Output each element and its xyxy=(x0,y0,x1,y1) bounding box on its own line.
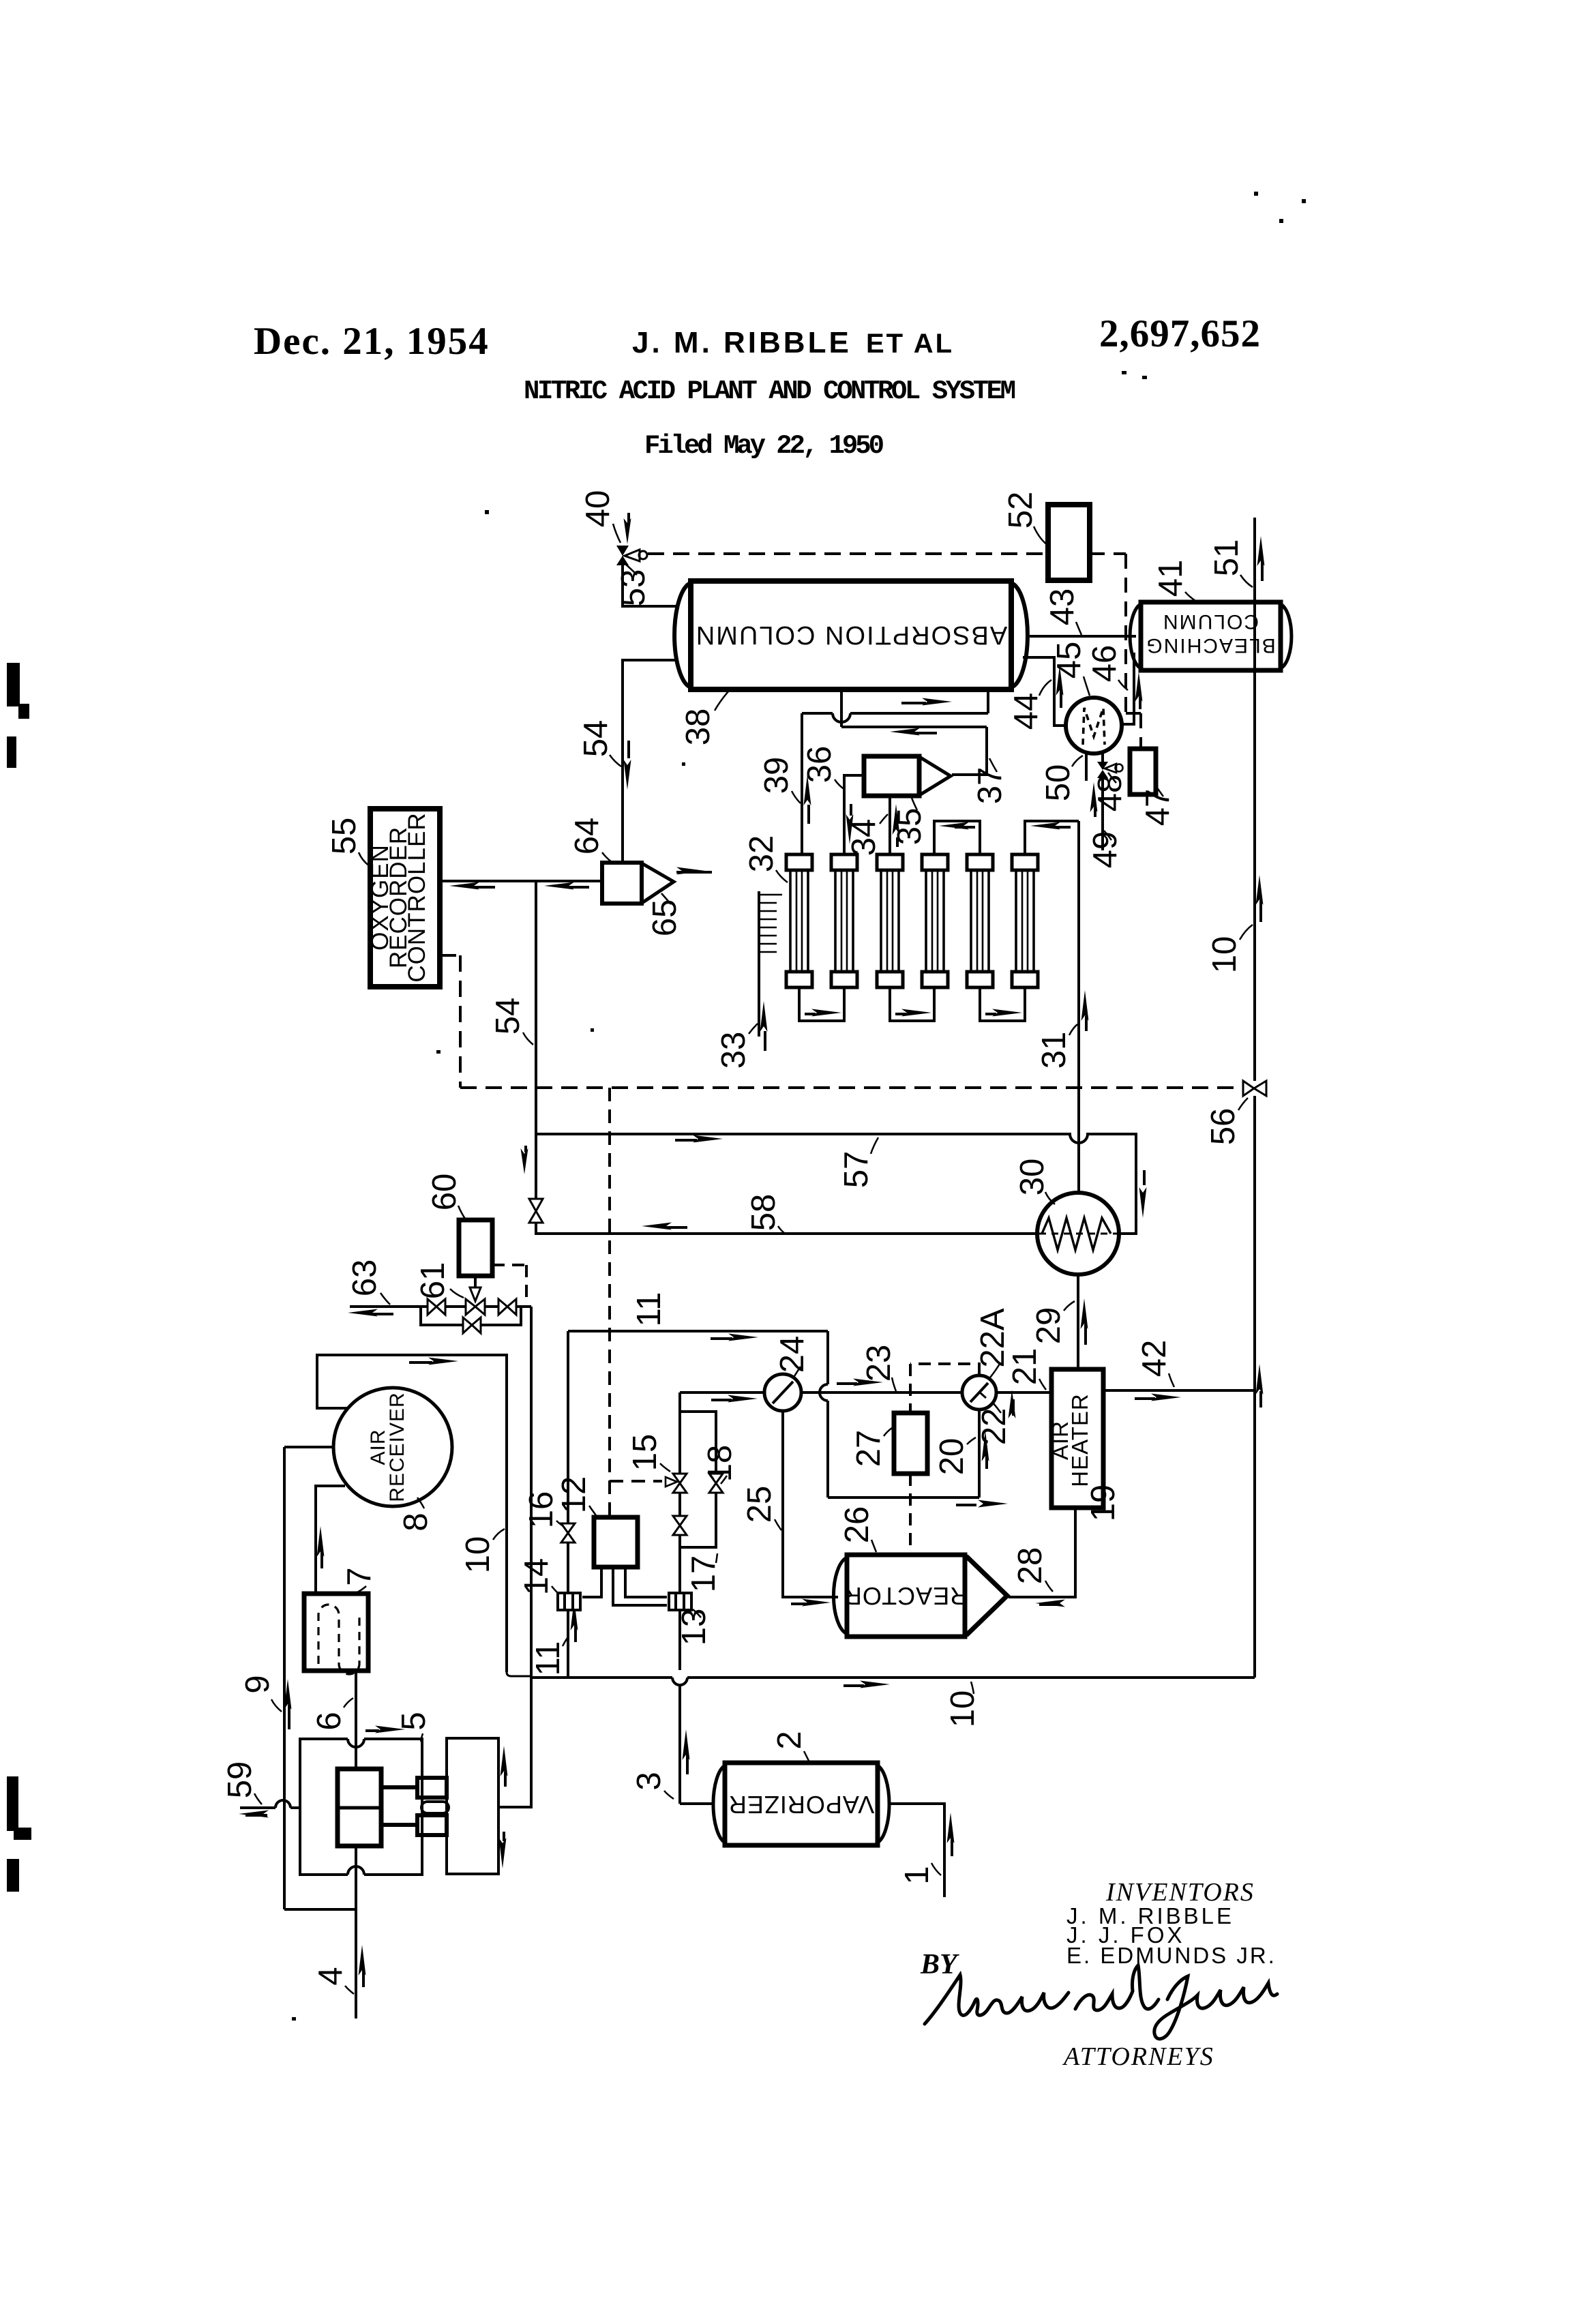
cooler condenser battery 32: unit 1 xyxy=(786,854,812,987)
bottom U pipe units 5-6 xyxy=(980,987,1025,1021)
pipe 25 to reactor xyxy=(783,1411,838,1597)
leader 39 xyxy=(792,791,801,803)
leader 31 xyxy=(1069,1024,1077,1035)
flow arrow left 4-5 xyxy=(939,822,975,830)
svg-text:61: 61 xyxy=(415,1262,451,1300)
flow arrow right 3-4 xyxy=(895,1009,931,1017)
bottom U pipe units 1-2 xyxy=(799,987,844,1021)
bleaching column 41 xyxy=(1130,602,1292,670)
svg-text:BY: BY xyxy=(920,1949,959,1980)
mixing tee box 12 xyxy=(594,1517,638,1567)
flow arrow down on 54 line xyxy=(521,1146,528,1174)
cooling water comb 33 xyxy=(759,891,782,1037)
absorption column 38 xyxy=(674,581,1028,689)
heat exchanger 30 xyxy=(1037,1193,1119,1275)
control signal dashed box52 to valve46/47 xyxy=(1090,554,1141,749)
svg-text:55: 55 xyxy=(326,818,363,855)
leader 34 xyxy=(880,814,888,824)
svg-text:39: 39 xyxy=(758,757,795,794)
svg-text:14: 14 xyxy=(518,1558,555,1596)
svg-text:3: 3 xyxy=(631,1772,668,1790)
flow arrow right 57 xyxy=(675,1135,723,1143)
reactor 26 xyxy=(833,1555,1007,1637)
air heater 19 xyxy=(1047,1369,1103,1508)
svg-text:4: 4 xyxy=(312,1967,349,1985)
leader 1 xyxy=(931,1863,941,1875)
condenser unit 3 xyxy=(877,854,903,987)
leader 54 upper xyxy=(610,755,621,766)
svg-text:7: 7 xyxy=(341,1567,378,1585)
box 12 legs to fitting 13 xyxy=(613,1567,667,1605)
leader 4 xyxy=(345,1986,354,1994)
relay box 47 xyxy=(1130,749,1156,794)
svg-text:36: 36 xyxy=(801,746,838,784)
svg-text:10: 10 xyxy=(944,1690,981,1728)
leader 13 xyxy=(693,1609,701,1618)
leader 38 xyxy=(715,691,728,711)
pipe 25 top loop xyxy=(568,1331,979,1498)
svg-text:21: 21 xyxy=(1006,1348,1043,1386)
leader 49 xyxy=(1104,831,1111,840)
bottom U pipe units 3-4 xyxy=(890,987,934,1021)
svg-text:12: 12 xyxy=(556,1476,593,1514)
flow arrow right in upper duct xyxy=(901,698,952,706)
svg-text:22: 22 xyxy=(976,1408,1013,1446)
flow arrow left b xyxy=(544,882,589,890)
flow arrow right after 24 xyxy=(837,1379,883,1386)
bypass pipe 17 xyxy=(680,1412,716,1547)
svg-text:48: 48 xyxy=(1092,775,1129,812)
flow arrow up 49 xyxy=(1090,782,1098,817)
flow arrow up 44 xyxy=(1056,666,1064,708)
block valve left xyxy=(428,1299,445,1315)
leader 23 xyxy=(892,1377,896,1391)
flow arrow up 4 xyxy=(359,1945,366,1987)
compressor casing right xyxy=(447,1738,498,1874)
block valve below 15 xyxy=(673,1516,687,1535)
svg-text:9: 9 xyxy=(239,1675,276,1693)
pipe 9 vertical xyxy=(283,1447,286,1909)
leader 29 xyxy=(1064,1301,1075,1311)
svg-text:29: 29 xyxy=(1030,1307,1067,1345)
control valve 15 xyxy=(666,1474,687,1493)
flow arrow right 42 xyxy=(1135,1394,1181,1401)
svg-text:38: 38 xyxy=(680,709,717,746)
air receiver 8 xyxy=(333,1388,452,1506)
flow arrow left 28 xyxy=(1035,1600,1065,1607)
oxygen recorder controller box 55 xyxy=(367,809,440,987)
flow arrow up 3 xyxy=(683,1729,690,1774)
leader 37 xyxy=(989,758,997,772)
leader 22 xyxy=(993,1403,1001,1413)
pipe 46 bleaching column to exchanger 45 xyxy=(1123,653,1134,724)
leader 7 xyxy=(356,1586,366,1593)
flow arrow up mid line 10 xyxy=(1256,875,1264,922)
flow arrow up 1 xyxy=(947,1813,955,1856)
flow arrow up 39 xyxy=(804,775,811,824)
leader 56 xyxy=(1238,1098,1248,1110)
leader 10 right xyxy=(1240,925,1253,940)
leader 21 xyxy=(1039,1379,1046,1390)
svg-text:ATTORNEYS: ATTORNEYS xyxy=(1062,2042,1214,2071)
svg-text:15: 15 xyxy=(627,1434,663,1472)
block valve right xyxy=(498,1299,516,1315)
top pipe unit 6 to exchanger 30 xyxy=(1025,821,1079,854)
pipe second stage suction xyxy=(498,1307,531,1807)
leader 27 xyxy=(884,1428,892,1436)
svg-text:59: 59 xyxy=(222,1761,258,1799)
receiver loop pipe xyxy=(317,1355,507,1672)
svg-text:37: 37 xyxy=(972,767,1009,805)
svg-text:11: 11 xyxy=(530,1641,567,1676)
svg-text:56: 56 xyxy=(1205,1108,1242,1146)
bypass pipe with valve xyxy=(421,1307,521,1325)
svg-text:VAPORIZER: VAPORIZER xyxy=(728,1791,874,1819)
svg-text:22A: 22A xyxy=(974,1308,1011,1368)
leader 59 xyxy=(254,1793,262,1804)
leader 61 xyxy=(450,1289,464,1298)
hop over pipe 9 xyxy=(275,1800,290,1808)
top U pipe units 4-5 xyxy=(934,821,980,854)
svg-text:ABSORPTION COLUMN: ABSORPTION COLUMN xyxy=(695,621,1007,649)
svg-text:11: 11 xyxy=(631,1292,668,1327)
flow arrow right lower loop xyxy=(956,1500,1008,1508)
svg-text:32: 32 xyxy=(743,835,780,873)
vaporizer feed pipe 3 xyxy=(680,1802,713,1805)
leader 47 xyxy=(1156,786,1163,796)
svg-text:E. EDMUNDS JR.: E. EDMUNDS JR. xyxy=(1066,1943,1277,1968)
pipe 34 separator36 bottom to condenser 3 xyxy=(889,796,891,854)
relay box 27 xyxy=(894,1413,927,1474)
svg-text:41: 41 xyxy=(1152,560,1189,597)
leader 33 xyxy=(749,1024,758,1034)
leader 22A xyxy=(990,1364,1000,1377)
svg-text:ET AL: ET AL xyxy=(866,329,954,359)
svg-text:52: 52 xyxy=(1002,492,1039,529)
leader 42 xyxy=(1169,1373,1174,1387)
flow arrow right before 24 xyxy=(711,1395,758,1403)
flow arrow left 59 xyxy=(239,1811,269,1818)
flow arrow up 11 xyxy=(571,1600,578,1642)
leader 36 xyxy=(835,779,845,790)
leader 32 xyxy=(776,870,788,882)
blowoff line 63 xyxy=(350,1305,531,1308)
svg-text:NITRIC ACID PLANT AND CONTROL: NITRIC ACID PLANT AND CONTROL SYSTEM xyxy=(524,376,1016,406)
orifice meter 24 xyxy=(764,1374,801,1411)
control dashed box60 to manifold xyxy=(492,1265,526,1302)
leader 17 xyxy=(716,1553,717,1563)
separator 36 xyxy=(864,756,951,796)
leader 15 xyxy=(660,1463,670,1472)
svg-text:REACTOR: REACTOR xyxy=(844,1582,968,1610)
ammonia feed pipe 1 xyxy=(889,1804,944,1897)
svg-text:28: 28 xyxy=(1012,1547,1049,1585)
flanged fitting 13 xyxy=(669,1593,691,1610)
flow arrow up 20 xyxy=(982,1431,989,1469)
leader 50 xyxy=(1072,756,1083,766)
leader 25 xyxy=(775,1519,781,1530)
crossing dip on duct under nozzle xyxy=(833,713,850,722)
pipe 6 coil to compressor xyxy=(355,1671,357,1769)
pipe 59 first stage xyxy=(240,1806,275,1809)
control dashed from controller 55 xyxy=(440,955,1242,1088)
svg-text:60: 60 xyxy=(426,1174,463,1211)
svg-text:31: 31 xyxy=(1036,1032,1073,1069)
svg-text:58: 58 xyxy=(745,1194,782,1232)
svg-text:25: 25 xyxy=(741,1486,778,1523)
flow arrow left 58 xyxy=(642,1223,687,1230)
leader 64 xyxy=(602,852,612,862)
control valve 61 xyxy=(466,1299,485,1315)
svg-text:10: 10 xyxy=(1206,936,1243,974)
svg-text:Dec. 21, 1954: Dec. 21, 1954 xyxy=(254,320,490,363)
pipe 50 exchanger drain stub xyxy=(1085,751,1088,781)
svg-text:40: 40 xyxy=(580,490,616,528)
shaft coupling lower xyxy=(381,1815,447,1835)
pipe 43 column to bleaching column xyxy=(1030,635,1136,638)
flow arrow up 31 xyxy=(1081,990,1089,1031)
svg-text:42: 42 xyxy=(1136,1340,1173,1377)
main pipe right riser connection xyxy=(1252,1676,1255,1679)
leader 54 lower xyxy=(523,1032,533,1045)
flow arrow down right casing xyxy=(499,1832,507,1868)
leader 40 xyxy=(613,524,621,543)
pipe separator36 to condenser 2 xyxy=(844,775,864,854)
svg-text:46: 46 xyxy=(1086,645,1123,683)
svg-text:43: 43 xyxy=(1044,589,1081,626)
leader 44 xyxy=(1039,680,1051,696)
svg-text:34: 34 xyxy=(846,819,882,856)
leader 65 xyxy=(661,893,671,904)
attorney signature Hudson and Young xyxy=(925,1965,1277,2039)
leader 35 xyxy=(912,798,917,810)
flow arrow up 34 xyxy=(893,804,900,847)
leader 57 xyxy=(871,1137,878,1154)
main pipe 10 bottom xyxy=(531,1676,1252,1679)
casing notch top xyxy=(348,1739,364,1747)
flow arrow right top loop xyxy=(711,1334,758,1341)
leader 26 xyxy=(871,1540,876,1552)
leader 16 xyxy=(556,1521,563,1526)
leader 51 xyxy=(1240,575,1253,587)
flow arrow right 10 xyxy=(844,1681,890,1688)
leader 20 xyxy=(967,1437,976,1444)
pipe 29 exchanger 30 to air heater xyxy=(1077,1275,1079,1369)
leader 60 xyxy=(458,1206,465,1219)
instrument air line 23 xyxy=(680,1391,962,1394)
flow arrow right 5-6 xyxy=(985,1009,1022,1017)
leader 30 xyxy=(1045,1192,1055,1204)
bypass valve xyxy=(463,1317,481,1333)
svg-text:24: 24 xyxy=(774,1336,811,1373)
aftercooler coil box 7 xyxy=(304,1594,368,1674)
valve 48 with actuator xyxy=(1097,751,1123,850)
svg-text:5: 5 xyxy=(395,1712,432,1730)
svg-text:INVENTORS: INVENTORS xyxy=(1105,1878,1255,1907)
vent arrow 65 xyxy=(676,867,712,875)
leader 55 xyxy=(359,852,370,866)
pipe 42 air heater to main riser xyxy=(1103,1389,1255,1392)
flow arrow up 46 xyxy=(1135,672,1143,709)
svg-text:53: 53 xyxy=(615,569,652,607)
pipe 39 duct to condenser 1 xyxy=(801,713,803,854)
leader 63 xyxy=(380,1293,390,1305)
svg-text:65: 65 xyxy=(646,899,683,937)
valve 16 xyxy=(561,1523,575,1543)
leader 10 loop xyxy=(493,1529,505,1540)
pipe 44 column to exchanger 45 xyxy=(1023,657,1065,726)
svg-text:6: 6 xyxy=(311,1712,348,1730)
valve on sample line xyxy=(529,1199,543,1223)
scan speckle dots xyxy=(292,192,1306,2021)
flow arrow left unit 6 xyxy=(1030,822,1071,830)
control signal dashed valve40 to box52 xyxy=(648,552,1048,555)
orifice meter 22A xyxy=(962,1375,996,1410)
leader 14 xyxy=(552,1586,557,1592)
separator 64 xyxy=(602,863,674,904)
leader 43 xyxy=(1076,622,1081,635)
condenser unit 6 xyxy=(1012,854,1038,987)
control dashed to box 12 and valve 15 xyxy=(610,1088,662,1517)
svg-text:J. M. RIBBLE: J. M. RIBBLE xyxy=(632,326,852,359)
leader 53 xyxy=(625,564,637,575)
svg-text:63: 63 xyxy=(346,1260,383,1297)
upper duct to exchanger 44 side xyxy=(802,691,988,713)
flow arrow up to receiver xyxy=(317,1526,325,1568)
shaft coupling upper xyxy=(381,1778,447,1798)
secondary air pipe 11 xyxy=(567,1331,569,1678)
pipe 28 reactor to air heater xyxy=(1009,1508,1075,1597)
pipe 53 valve to column xyxy=(623,565,676,606)
flow arrow right 1-2 xyxy=(805,1009,841,1017)
svg-text:13: 13 xyxy=(676,1609,713,1646)
column bottom nozzle xyxy=(840,689,843,727)
leader 11 bottom xyxy=(563,1638,567,1646)
flow arrow right loop xyxy=(409,1358,458,1365)
casing notch bottom xyxy=(348,1866,364,1875)
lower gas pipe from nozzle xyxy=(841,726,987,728)
pipe 9 horizontal to receiver xyxy=(284,1446,333,1448)
leader 10 bottom xyxy=(971,1682,974,1694)
flow arrow left 63 xyxy=(348,1309,393,1317)
flanged fitting 14 xyxy=(558,1593,580,1610)
svg-text:47: 47 xyxy=(1139,789,1176,826)
condenser unit 4 xyxy=(922,854,948,987)
svg-text:54: 54 xyxy=(490,998,526,1035)
svg-text:23: 23 xyxy=(861,1345,897,1382)
leader 3 xyxy=(664,1791,674,1799)
svg-text:27: 27 xyxy=(850,1430,887,1468)
svg-text:19: 19 xyxy=(1085,1485,1122,1522)
shaft coupling pill xyxy=(421,1802,449,1813)
leader 41 xyxy=(1185,592,1195,601)
hop at instrument line xyxy=(820,1384,828,1401)
svg-text:64: 64 xyxy=(569,818,606,855)
leader 12 xyxy=(589,1506,596,1515)
pipe 20 xyxy=(978,1410,981,1498)
control valve 56 xyxy=(1243,1081,1266,1096)
control dashed 22A to relay 27 xyxy=(910,1364,979,1413)
flow arrow right at compressor top xyxy=(365,1726,405,1733)
leader 58 xyxy=(778,1226,784,1233)
controller box 52 xyxy=(1048,505,1090,580)
svg-text:20: 20 xyxy=(934,1438,970,1476)
leader 5 xyxy=(421,1733,423,1742)
control valve 40 xyxy=(616,546,647,565)
leader 6 xyxy=(344,1698,353,1708)
controller box 60 xyxy=(459,1220,492,1276)
svg-text:26: 26 xyxy=(839,1506,876,1544)
svg-text:30: 30 xyxy=(1014,1159,1051,1196)
actuator stem valve 61 xyxy=(470,1276,481,1301)
svg-text:1: 1 xyxy=(899,1866,936,1884)
leader 8 xyxy=(417,1498,424,1508)
leader 24 xyxy=(794,1367,801,1376)
svg-text:Filed May 22, 1950: Filed May 22, 1950 xyxy=(644,431,884,461)
flow arrow down on 54 xyxy=(624,741,631,790)
svg-text:57: 57 xyxy=(838,1151,875,1189)
pipe 54 sample line down xyxy=(535,881,537,1134)
flow arrow up 29 xyxy=(1081,1298,1088,1345)
svg-text:44: 44 xyxy=(1008,693,1045,730)
loop joins drop pipe xyxy=(507,1672,531,1676)
flow arrow up main riser at 42 xyxy=(1256,1364,1264,1407)
flow arrow up 33 xyxy=(760,1001,768,1051)
svg-text:8: 8 xyxy=(398,1513,434,1531)
svg-text:16: 16 xyxy=(523,1491,560,1529)
ammonia gas pipe to fitting 13 xyxy=(678,1392,681,1804)
pipe 31 exchanger 30 to condenser 6 xyxy=(1077,821,1080,1193)
svg-text:2,697,652: 2,697,652 xyxy=(1099,312,1261,355)
svg-text:45: 45 xyxy=(1051,642,1088,679)
svg-text:10: 10 xyxy=(460,1536,496,1574)
flow arrow up right casing xyxy=(501,1746,508,1787)
flow arrow up 51 xyxy=(1257,536,1265,581)
condenser unit 2 xyxy=(831,854,857,987)
leader 18 xyxy=(721,1476,727,1484)
leader 9 xyxy=(271,1699,282,1712)
svg-text:18: 18 xyxy=(702,1445,738,1483)
pipe 58 xyxy=(536,1134,1037,1234)
control dashed 27 to reactor xyxy=(909,1474,912,1553)
leader 52 xyxy=(1034,526,1048,546)
box 12 left leg to fitting 14 xyxy=(582,1567,601,1597)
heat exchanger 45 xyxy=(1066,698,1122,754)
leader 48 xyxy=(1108,773,1116,783)
svg-text:54: 54 xyxy=(578,720,614,758)
flow arrow left a xyxy=(449,882,495,890)
flow arrow left on lower pipe xyxy=(890,728,937,736)
flow arrow up at 21 xyxy=(1009,1390,1016,1418)
vaporizer 2 xyxy=(713,1763,889,1845)
svg-text:51: 51 xyxy=(1208,539,1245,577)
compressor casing 5 left xyxy=(300,1739,422,1875)
air inlet pipe 4 xyxy=(284,1846,356,2018)
leader 46 xyxy=(1118,680,1128,690)
condenser unit 5 xyxy=(967,854,993,987)
sample pipe separator 64 to controller xyxy=(440,880,602,882)
svg-text:50: 50 xyxy=(1040,764,1077,802)
svg-text:33: 33 xyxy=(715,1032,752,1069)
riser 37 separator to lower pipe xyxy=(952,727,987,775)
flow arrow down to condenser 2 xyxy=(846,804,854,844)
pipe 54 from column to separator 64 xyxy=(623,660,676,861)
pipe receiver to aftercooler xyxy=(316,1486,345,1594)
bypass valve 18 xyxy=(709,1474,723,1493)
margin scan artifact 1 xyxy=(7,663,31,1892)
leader 28 xyxy=(1045,1581,1053,1592)
hop over vaporizer feed xyxy=(672,1678,687,1685)
